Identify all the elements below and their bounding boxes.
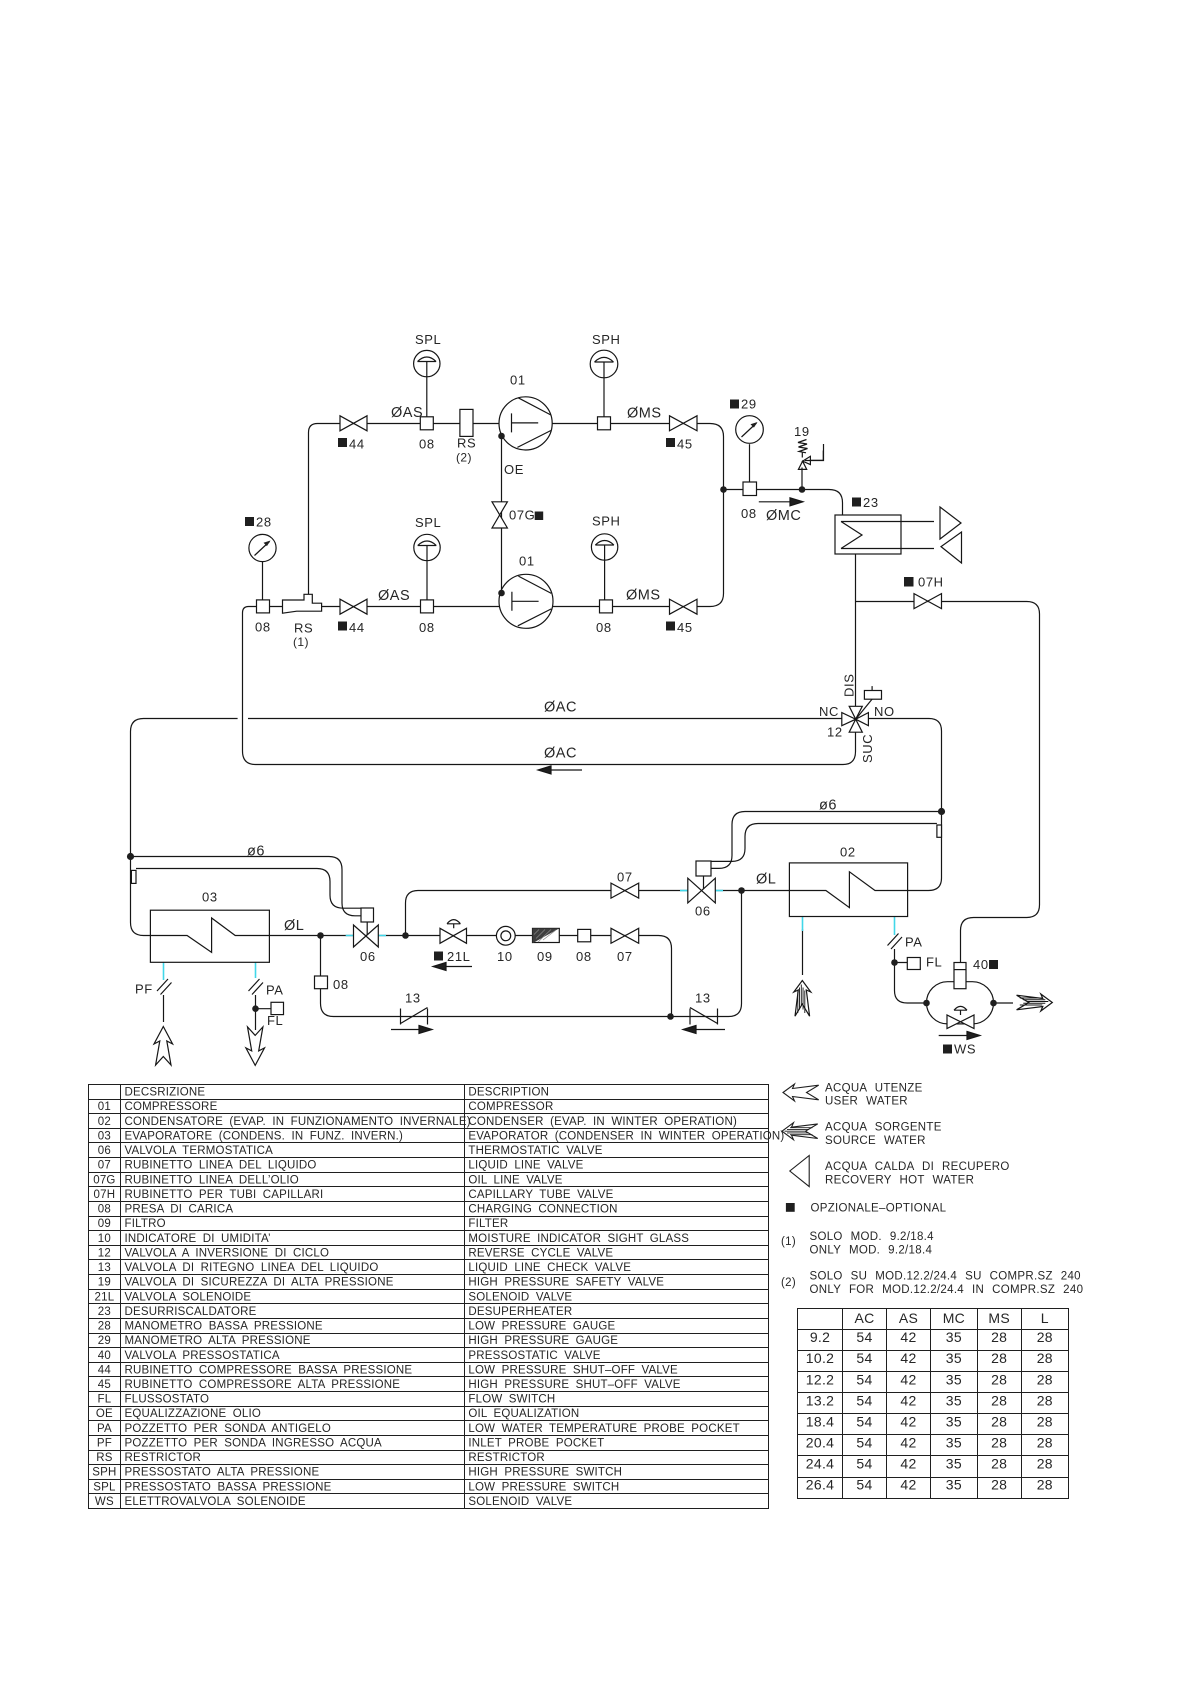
svg-text:DESCRIPTION: DESCRIPTION — [468, 1087, 549, 1099]
svg-text:54: 54 — [856, 1477, 872, 1493]
recovery hot water legend triangle — [790, 1156, 809, 1187]
svg-text:FILTRO: FILTRO — [125, 1218, 166, 1230]
svg-text:54: 54 — [856, 1350, 872, 1366]
user water arrow down below 03 PA — [246, 1027, 265, 1066]
svg-text:19: 19 — [98, 1277, 111, 1289]
svg-text:PRESA DI CARICA: PRESA DI CARICA — [125, 1204, 234, 1216]
svg-text:(2): (2) — [781, 1277, 796, 1289]
svg-text:L: L — [1041, 1310, 1049, 1326]
wire SPL lower stem — [426, 561, 428, 600]
condenser 02 shell — [789, 863, 907, 917]
svg-text:OE: OE — [504, 462, 524, 477]
svg-text:10.2: 10.2 — [806, 1350, 834, 1366]
svg-text:SPL: SPL — [93, 1481, 116, 1493]
svg-text:OIL LINE VALVE: OIL LINE VALVE — [468, 1174, 562, 1186]
label 44 lower with option square — [338, 622, 347, 631]
liquid line check valve 13 left — [401, 1008, 428, 1025]
restrictor RS (2) — [460, 409, 473, 436]
svg-text:40: 40 — [973, 957, 989, 972]
svg-text:ØMS: ØMS — [626, 588, 661, 604]
svg-text:REVERSE CYCLE VALVE: REVERSE CYCLE VALVE — [468, 1247, 613, 1259]
svg-text:RESTRICTOR: RESTRICTOR — [468, 1452, 545, 1464]
flow switch FL left — [271, 1002, 284, 1014]
svg-text:RS: RS — [96, 1452, 113, 1464]
svg-text:54: 54 — [856, 1435, 872, 1451]
svg-text:ACQUA SORGENTE: ACQUA SORGENTE — [825, 1122, 942, 1134]
svg-text:LOW WATER TEMPERATURE PROBE PO: LOW WATER TEMPERATURE PROBE POCKET — [468, 1423, 739, 1435]
high pressure switch SPH lower — [591, 534, 617, 560]
node ØL left tee — [317, 932, 324, 939]
svg-text:28: 28 — [1037, 1329, 1053, 1345]
wire upper liquid branch 07/06 to condenser 02 — [406, 891, 790, 936]
wire lower compressor line left + suction ØAC lower return — [243, 607, 856, 765]
svg-text:RESTRICTOR: RESTRICTOR — [125, 1452, 202, 1464]
wire ø6 equalizer right outer line — [711, 812, 942, 869]
svg-text:SOLENOID VALVE: SOLENOID VALVE — [468, 1291, 572, 1303]
label 44 upper with option square — [338, 438, 347, 447]
svg-text:42: 42 — [900, 1413, 916, 1429]
svg-text:42: 42 — [900, 1329, 916, 1345]
svg-text:54: 54 — [856, 1392, 872, 1408]
label 29 with option square — [730, 400, 739, 409]
svg-text:21L: 21L — [95, 1291, 115, 1303]
svg-text:28: 28 — [1037, 1350, 1053, 1366]
svg-text:42: 42 — [900, 1371, 916, 1387]
svg-text:01: 01 — [510, 373, 526, 388]
svg-text:28: 28 — [991, 1456, 1007, 1472]
svg-text:FLOW SWITCH: FLOW SWITCH — [468, 1394, 555, 1406]
svg-text:12.2: 12.2 — [806, 1371, 834, 1387]
antifreeze probe pocket PA below 02 — [888, 934, 903, 950]
svg-text:13: 13 — [405, 991, 421, 1006]
wire gauge 28 stem — [262, 562, 264, 600]
svg-text:29: 29 — [98, 1335, 111, 1347]
svg-text:35: 35 — [946, 1350, 962, 1366]
svg-text:INLET PROBE POCKET: INLET PROBE POCKET — [468, 1438, 604, 1450]
bulb left on riser — [131, 870, 136, 883]
wire ØAC upper right segment to valve 12 NC — [248, 718, 842, 720]
wire SPH lower stem — [604, 560, 606, 600]
svg-text:HIGH PRESSURE SWITCH: HIGH PRESSURE SWITCH — [468, 1467, 622, 1479]
svg-text:MANOMETRO BASSA PRESSIONE: MANOMETRO BASSA PRESSIONE — [125, 1321, 323, 1333]
svg-text:01: 01 — [98, 1101, 111, 1113]
svg-text:10: 10 — [497, 949, 513, 964]
recovery hot water triangle out — [940, 507, 961, 539]
wire safety valve 19 drop and vent outlet — [802, 444, 824, 490]
svg-text:SUC: SUC — [860, 734, 875, 763]
svg-text:SPH: SPH — [592, 332, 621, 347]
wire liquid check-valve bypass line 13 — [321, 891, 742, 1017]
svg-text:PRESSOSTATIC VALVE: PRESSOSTATIC VALVE — [468, 1350, 600, 1362]
svg-text:35: 35 — [946, 1371, 962, 1387]
high pressure switch SPH upper — [590, 350, 618, 378]
svg-text:13: 13 — [695, 991, 711, 1006]
svg-text:01: 01 — [519, 554, 535, 569]
svg-text:SOLENOID VALVE: SOLENOID VALVE — [468, 1496, 572, 1508]
wire SPL upper stem — [426, 377, 428, 417]
wire upper compressor circuit loop (suction/discharge main lines + right riser) — [309, 424, 724, 607]
svg-text:28: 28 — [991, 1477, 1007, 1493]
svg-text:42: 42 — [900, 1477, 916, 1493]
svg-text:02: 02 — [98, 1116, 111, 1128]
thermostatic valve 06 left with solenoid head — [354, 908, 379, 947]
high pressure gauge 29 — [736, 416, 764, 444]
svg-text:24.4: 24.4 — [806, 1456, 834, 1472]
node OE lower tap — [498, 590, 505, 597]
svg-text:FL: FL — [97, 1394, 111, 1406]
svg-text:07: 07 — [98, 1160, 111, 1172]
svg-text:23: 23 — [863, 495, 879, 510]
wire SPH upper stem — [603, 378, 605, 417]
svg-text:54: 54 — [856, 1329, 872, 1345]
svg-text:28: 28 — [256, 515, 272, 530]
inlet probe pocket PF — [157, 979, 172, 995]
node ØL right tee — [738, 887, 745, 894]
svg-text:44: 44 — [98, 1364, 112, 1376]
cyan tick marks on ØL at valve 06 right — [680, 890, 723, 892]
svg-text:13.2: 13.2 — [806, 1392, 834, 1408]
svg-text:VALVOLA PRESSOSTATICA: VALVOLA PRESSOSTATICA — [125, 1350, 280, 1362]
shut-off valve 44 upper — [340, 416, 367, 431]
capillary tube valve 07H — [914, 594, 942, 609]
svg-text:MOISTURE INDICATOR SIGHT GLASS: MOISTURE INDICATOR SIGHT GLASS — [468, 1233, 689, 1245]
cyan probe pocket leads below condenser 02 — [803, 917, 895, 936]
charging connection 08 lower right — [600, 600, 613, 613]
svg-text:EVAPORATORE (CONDENS. IN FUNZ.: EVAPORATORE (CONDENS. IN FUNZ. INVERN.) — [125, 1131, 404, 1143]
model capacity table — [798, 1309, 1069, 1499]
low pressure switch SPL lower — [414, 534, 440, 560]
svg-text:09: 09 — [537, 949, 553, 964]
cyan probe pocket leads below evaporator 03 — [164, 962, 256, 980]
svg-text:ØAS: ØAS — [391, 405, 423, 421]
svg-text:VALVOLA TERMOSTATICA: VALVOLA TERMOSTATICA — [125, 1145, 274, 1157]
svg-text:RECOVERY HOT WATER: RECOVERY HOT WATER — [825, 1175, 974, 1187]
wire desuperheater 23 internal tubes — [841, 522, 934, 549]
liquid line valve 07 lower branch — [611, 928, 639, 943]
wire bulb capillary right inner line — [711, 824, 937, 862]
svg-text:28: 28 — [991, 1413, 1007, 1429]
svg-text:28: 28 — [991, 1329, 1007, 1345]
node check line tee — [667, 1013, 674, 1020]
svg-text:28: 28 — [1037, 1456, 1053, 1472]
svg-text:19: 19 — [794, 424, 810, 439]
node ø6 left equalizer tap — [127, 853, 134, 860]
svg-text:ELETTROVALVOLA SOLENOIDE: ELETTROVALVOLA SOLENOIDE — [125, 1496, 306, 1508]
svg-text:21L: 21L — [447, 949, 471, 964]
svg-text:MANOMETRO ALTA PRESSIONE: MANOMETRO ALTA PRESSIONE — [125, 1335, 311, 1347]
svg-text:35: 35 — [946, 1435, 962, 1451]
node stadium right — [990, 1000, 997, 1007]
svg-text:ø6: ø6 — [819, 798, 837, 814]
charging connection 08 upper right — [598, 417, 611, 430]
wire ØL line from 03 to branch corner down — [269, 936, 671, 1017]
wire ø6 equalizer left outer line — [131, 857, 362, 916]
svg-text:54: 54 — [856, 1413, 872, 1429]
wire outlet right of stadium — [994, 1002, 1014, 1004]
node stadium left — [923, 1000, 930, 1007]
svg-text:FILTER: FILTER — [468, 1218, 508, 1230]
svg-text:42: 42 — [900, 1456, 916, 1472]
svg-text:40: 40 — [98, 1350, 111, 1362]
compressor 01 upper — [499, 397, 552, 450]
shut-off valve 45 upper — [670, 416, 698, 431]
wire pressostatic bypass stadium — [927, 982, 994, 1024]
svg-text:RUBINETTO COMPRESSORE ALTA PRE: RUBINETTO COMPRESSORE ALTA PRESSIONE — [125, 1379, 401, 1391]
wire ØAC upper left segment with curve to left riser — [131, 719, 238, 732]
svg-text:HIGH PRESSURE GAUGE: HIGH PRESSURE GAUGE — [468, 1335, 618, 1347]
svg-text:SPH: SPH — [592, 514, 621, 529]
wire water pocket drop below 03 PA + FL link — [256, 995, 272, 1030]
svg-text:28: 28 — [1037, 1413, 1053, 1429]
label 21L with option square — [434, 952, 443, 961]
svg-text:VALVOLA DI SICUREZZA DI ALTA P: VALVOLA DI SICUREZZA DI ALTA PRESSIONE — [125, 1277, 394, 1289]
flow arrow check 13 left rightward — [391, 1026, 432, 1034]
svg-text:POZZETTO PER SONDA ANTIGELO: POZZETTO PER SONDA ANTIGELO — [125, 1423, 332, 1435]
label 45 upper with option square — [666, 438, 675, 447]
node FL left tap — [252, 1005, 259, 1012]
svg-text:AS: AS — [899, 1310, 918, 1326]
svg-text:(1): (1) — [293, 635, 309, 649]
charging connection 08 liquid branch — [578, 929, 591, 941]
svg-text:SPL: SPL — [415, 332, 441, 347]
svg-text:28: 28 — [1037, 1477, 1053, 1493]
svg-text:28: 28 — [991, 1371, 1007, 1387]
svg-text:02: 02 — [840, 845, 856, 860]
node ø6 right equalizer tap — [938, 808, 945, 815]
svg-text:42: 42 — [900, 1350, 916, 1366]
moisture indicator sight glass 10 — [496, 926, 515, 945]
svg-text:LIQUID LINE CHECK VALVE: LIQUID LINE CHECK VALVE — [468, 1262, 631, 1274]
svg-text:NO: NO — [874, 704, 895, 719]
shut-off valve 45 lower — [670, 599, 698, 614]
solenoid valve 21L — [440, 920, 467, 944]
svg-text:45: 45 — [677, 620, 693, 635]
svg-text:VALVOLA A INVERSIONE DI CICLO: VALVOLA A INVERSIONE DI CICLO — [125, 1247, 330, 1259]
label 45 lower with option square — [666, 622, 675, 631]
oil line valve 07G — [492, 502, 507, 528]
svg-text:08: 08 — [596, 620, 612, 635]
flow arrow ØAC lower left — [538, 766, 582, 774]
optional legend square — [786, 1203, 795, 1212]
legend table frame — [89, 1085, 769, 1509]
charging connection 08 upper left — [420, 417, 433, 430]
svg-text:ONLY MOD. 9.2/18.4: ONLY MOD. 9.2/18.4 — [810, 1245, 933, 1257]
svg-text:PA: PA — [97, 1423, 112, 1435]
svg-text:42: 42 — [900, 1435, 916, 1451]
charging connection 08 check line — [315, 976, 328, 989]
svg-text:06: 06 — [360, 949, 376, 964]
source water arrow right of stadium — [1017, 994, 1053, 1011]
svg-text:ACQUA UTENZE: ACQUA UTENZE — [825, 1083, 923, 1095]
svg-text:DIS: DIS — [842, 674, 857, 697]
wire 07H capillary branch down right side to valve 40 — [856, 602, 1040, 963]
svg-text:07G: 07G — [93, 1174, 115, 1186]
svg-text:PF: PF — [135, 982, 153, 997]
svg-text:07: 07 — [617, 949, 633, 964]
low pressure gauge 28 — [249, 534, 276, 561]
svg-text:PA: PA — [266, 983, 284, 998]
solenoid valve WS on bypass — [947, 1006, 974, 1028]
source water arrow up below 02 — [794, 981, 811, 1017]
svg-text:PRESSOSTATO BASSA PRESSIONE: PRESSOSTATO BASSA PRESSIONE — [125, 1481, 332, 1493]
wire source water drop below 02 left — [802, 929, 804, 975]
svg-text:ØMS: ØMS — [627, 406, 662, 422]
svg-text:35: 35 — [946, 1477, 962, 1493]
flow arrow 21L left — [433, 963, 472, 971]
svg-text:AC: AC — [854, 1310, 874, 1326]
svg-text:ØL: ØL — [756, 872, 776, 888]
liquid line valve 07 upper branch — [611, 883, 639, 898]
svg-text:SOLO MOD. 9.2/18.4: SOLO MOD. 9.2/18.4 — [810, 1231, 935, 1243]
svg-text:45: 45 — [677, 437, 693, 452]
svg-text:VALVOLA SOLENOIDE: VALVOLA SOLENOIDE — [125, 1291, 252, 1303]
charging connection 08 lower left — [421, 600, 434, 613]
svg-text:EQUALIZZAZIONE OLIO: EQUALIZZAZIONE OLIO — [125, 1408, 262, 1420]
evaporator 03 shell — [150, 910, 269, 962]
svg-text:06: 06 — [98, 1145, 111, 1157]
recovery hot water triangle in — [941, 532, 962, 563]
svg-text:ø6: ø6 — [247, 844, 265, 860]
svg-text:MS: MS — [988, 1310, 1010, 1326]
svg-text:PRESSOSTATO ALTA PRESSIONE: PRESSOSTATO ALTA PRESSIONE — [125, 1467, 320, 1479]
svg-text:54: 54 — [856, 1371, 872, 1387]
wire water pocket drop below 03 PF — [163, 995, 165, 1022]
svg-text:LIQUID LINE VALVE: LIQUID LINE VALVE — [468, 1160, 583, 1172]
svg-text:WS: WS — [95, 1496, 114, 1508]
svg-text:ACQUA CALDA DI RECUPERO: ACQUA CALDA DI RECUPERO — [825, 1161, 1010, 1173]
svg-text:28: 28 — [991, 1435, 1007, 1451]
user water arrow up below 03 PF — [154, 1027, 173, 1066]
svg-text:PF: PF — [97, 1438, 112, 1450]
flow arrow WS rightward — [939, 1032, 980, 1040]
svg-text:(1): (1) — [781, 1236, 796, 1248]
svg-text:13: 13 — [98, 1262, 111, 1274]
liquid line check valve 13 right — [690, 1008, 718, 1025]
svg-text:OPZIONALE–OPTIONAL: OPZIONALE–OPTIONAL — [811, 1203, 947, 1215]
svg-text:LOW PRESSURE GAUGE: LOW PRESSURE GAUGE — [468, 1321, 615, 1333]
svg-text:29: 29 — [741, 397, 757, 412]
svg-text:FL: FL — [267, 1013, 283, 1028]
svg-text:CHARGING CONNECTION: CHARGING CONNECTION — [468, 1204, 617, 1216]
svg-text:MC: MC — [943, 1310, 965, 1326]
svg-text:08: 08 — [255, 620, 271, 635]
svg-text:DESUPERHEATER: DESUPERHEATER — [468, 1306, 572, 1318]
svg-text:07H: 07H — [94, 1189, 116, 1201]
wire gauge 29 stem — [749, 444, 751, 482]
wire bulb capillary left inner line — [136, 869, 361, 909]
svg-text:THERMOSTATIC VALVE: THERMOSTATIC VALVE — [468, 1145, 602, 1157]
svg-text:26.4: 26.4 — [806, 1477, 834, 1493]
svg-text:35: 35 — [946, 1392, 962, 1408]
svg-text:20.4: 20.4 — [806, 1435, 834, 1451]
svg-text:ØMC: ØMC — [766, 508, 801, 524]
svg-text:RUBINETTO PER TUBI CAPILLARI: RUBINETTO PER TUBI CAPILLARI — [125, 1189, 324, 1201]
svg-text:07H: 07H — [918, 575, 944, 590]
svg-text:42: 42 — [900, 1392, 916, 1408]
svg-text:ONLY FOR MOD.12.2/24.4 IN COMP: ONLY FOR MOD.12.2/24.4 IN COMPR.SZ 240 — [810, 1284, 1084, 1296]
svg-text:RS: RS — [294, 621, 313, 636]
svg-text:ØAC: ØAC — [544, 746, 577, 762]
svg-text:CONDENSATORE (EVAP. IN FUNZION: CONDENSATORE (EVAP. IN FUNZIONAMENTO INV… — [125, 1116, 471, 1128]
svg-text:06: 06 — [695, 904, 711, 919]
svg-text:FL: FL — [926, 955, 942, 970]
svg-text:28: 28 — [1037, 1371, 1053, 1387]
svg-text:07G: 07G — [509, 508, 535, 523]
restrictor RS (1) — [283, 594, 322, 613]
wire evaporator 03 internal coil — [150, 918, 269, 952]
svg-text:08: 08 — [98, 1204, 111, 1216]
wire user drop below 02 right PA + FL link — [895, 949, 927, 1003]
svg-text:08: 08 — [333, 977, 349, 992]
svg-text:08: 08 — [576, 949, 592, 964]
svg-text:WS: WS — [954, 1042, 976, 1057]
svg-text:HIGH PRESSURE SHUT–OFF VALVE: HIGH PRESSURE SHUT–OFF VALVE — [468, 1379, 680, 1391]
node OE upper tap — [498, 433, 505, 440]
svg-text:OIL EQUALIZATION: OIL EQUALIZATION — [468, 1408, 579, 1420]
svg-text:ØAS: ØAS — [378, 588, 410, 604]
svg-text:ØAC: ØAC — [544, 700, 577, 716]
svg-text:HIGH PRESSURE SAFETY VALVE: HIGH PRESSURE SAFETY VALVE — [468, 1277, 664, 1289]
svg-text:44: 44 — [349, 620, 365, 635]
svg-text:RUBINETTO COMPRESSORE BASSA PR: RUBINETTO COMPRESSORE BASSA PRESSIONE — [125, 1364, 413, 1376]
desuperheater 23 — [835, 515, 901, 554]
svg-text:35: 35 — [946, 1329, 962, 1345]
label 07H with option square — [904, 577, 914, 587]
svg-text:09: 09 — [98, 1218, 111, 1230]
wire condenser 02 internal coil — [789, 872, 907, 908]
svg-text:RUBINETTO LINEA DELL’OLIO: RUBINETTO LINEA DELL’OLIO — [125, 1174, 299, 1186]
label 23 with option square — [852, 498, 861, 507]
shut-off valve 44 lower — [340, 599, 367, 614]
reverse cycle valve 12 — [842, 686, 882, 732]
svg-text:DECSRIZIONE: DECSRIZIONE — [125, 1087, 206, 1099]
cyan tick marks on ØL at valve 06 left — [346, 935, 386, 937]
wire OE oil equalization line — [501, 436, 503, 593]
svg-text:28: 28 — [991, 1350, 1007, 1366]
svg-text:28: 28 — [1037, 1435, 1053, 1451]
svg-text:23: 23 — [98, 1306, 111, 1318]
wire suction riser from 02 up to valve 12 NO — [868, 719, 941, 891]
wire left riser down into evaporator 03 — [131, 732, 151, 936]
svg-text:SPL: SPL — [415, 515, 441, 530]
svg-text:INDICATORE DI UMIDITA’: INDICATORE DI UMIDITA’ — [125, 1233, 271, 1245]
svg-text:CONDENSER (EVAP. IN WINTER OPE: CONDENSER (EVAP. IN WINTER OPERATION) — [468, 1116, 737, 1128]
svg-text:08: 08 — [419, 437, 435, 452]
svg-text:44: 44 — [349, 437, 365, 452]
svg-text:07: 07 — [617, 870, 633, 885]
svg-text:28: 28 — [98, 1321, 111, 1333]
filter 09 — [533, 928, 560, 943]
svg-text:DESURRISCALDATORE: DESURRISCALDATORE — [125, 1306, 257, 1318]
svg-text:POZZETTO PER SONDA INGRESSO AC: POZZETTO PER SONDA INGRESSO ACQUA — [125, 1438, 383, 1450]
node discharge header tee — [720, 486, 727, 493]
thermostatic valve 06 right with solenoid head — [688, 861, 716, 903]
bulb right on riser — [937, 825, 942, 837]
svg-text:(2): (2) — [456, 451, 472, 465]
svg-text:COMPRESSOR: COMPRESSOR — [468, 1101, 553, 1113]
node liquid branch tee — [402, 932, 409, 939]
low pressure switch SPL upper — [414, 350, 440, 376]
svg-text:SOLO SU MOD.12.2/24.4 SU COMPR: SOLO SU MOD.12.2/24.4 SU COMPR.SZ 240 — [810, 1271, 1081, 1283]
antifreeze probe pocket PA below 03 — [249, 979, 264, 995]
svg-text:08: 08 — [419, 620, 435, 635]
svg-text:PA: PA — [905, 935, 923, 950]
user water legend arrow — [783, 1084, 819, 1101]
source water legend arrow — [782, 1123, 818, 1140]
svg-text:FLUSSOSTATO: FLUSSOSTATO — [125, 1394, 210, 1406]
svg-text:10: 10 — [98, 1233, 111, 1245]
flow arrow check 13 right leftward — [683, 1026, 725, 1034]
